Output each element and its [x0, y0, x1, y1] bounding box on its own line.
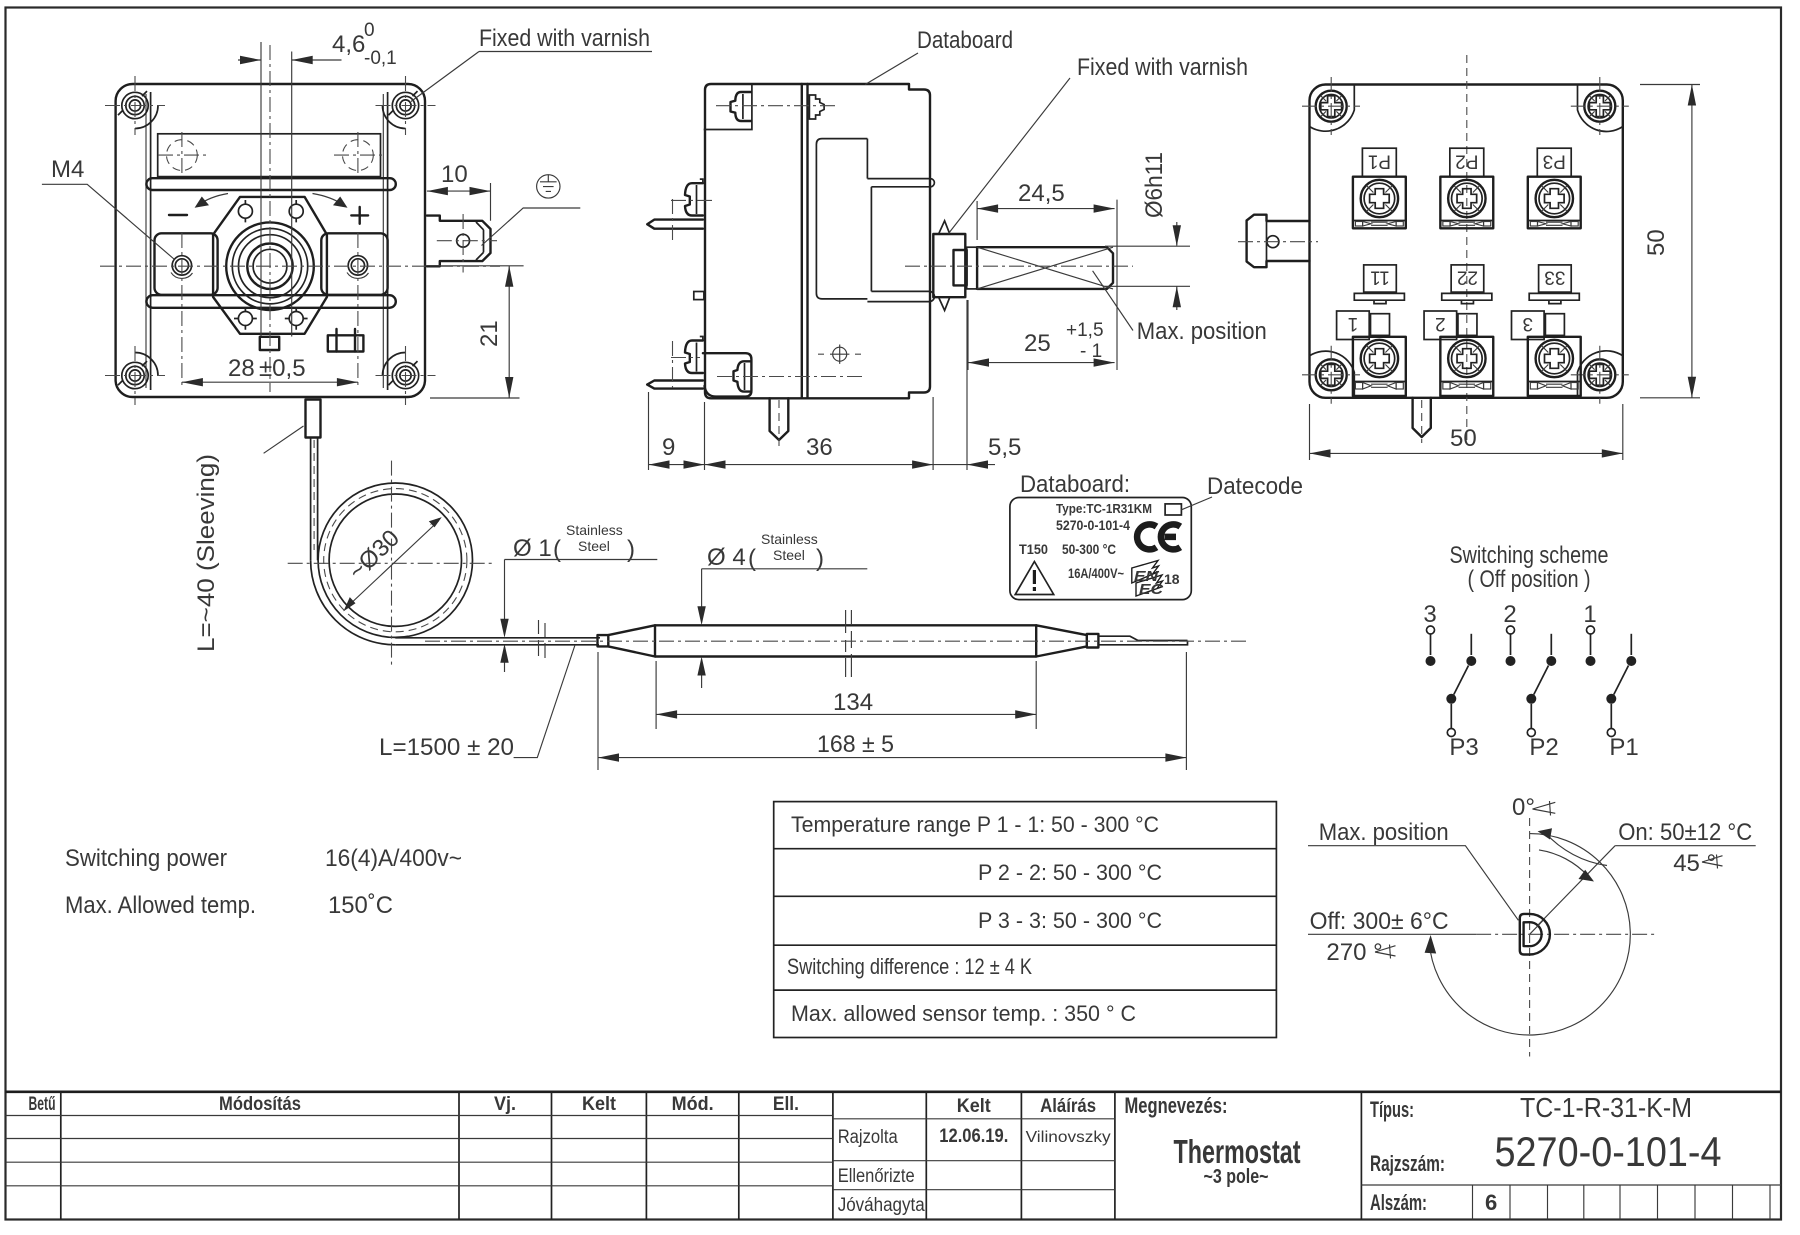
- svg-text:P1: P1: [1368, 151, 1391, 172]
- terminal 1 block: [1337, 311, 1406, 396]
- earth tab fold lines: [476, 222, 484, 260]
- front centerline vertical: [269, 45, 271, 392]
- title block top line: [6, 1091, 1782, 1094]
- svg-text:Módosítás: Módosítás: [219, 1094, 301, 1115]
- svg-text:Max. allowed sensor temp. : 35: Max. allowed sensor temp. : 350 ° C: [791, 1001, 1136, 1026]
- cw arrow: [313, 194, 345, 206]
- svg-text:Switching power: Switching power: [65, 845, 227, 872]
- earth tab front: [427, 216, 491, 267]
- svg-text:Thermostat: Thermostat: [1174, 1133, 1301, 1170]
- svg-text:Rajzszám:: Rajzszám:: [1370, 1151, 1445, 1176]
- earth tab rear hole: [1267, 236, 1279, 248]
- hole centerlines: [158, 132, 382, 178]
- axis top screws: [716, 105, 837, 107]
- svg-text:Type:TC-1R31KM: Type:TC-1R31KM: [1056, 501, 1152, 516]
- rear body: [1310, 85, 1623, 398]
- svg-text:Max. Allowed temp.: Max. Allowed temp.: [65, 892, 256, 919]
- svg-text:Switching difference : 12 ± 4: Switching difference : 12 ± 4 K: [787, 954, 1032, 979]
- svg-text:T150: T150: [1019, 541, 1048, 557]
- hexagon hole BL: [234, 307, 257, 329]
- svg-text:270 °: 270 °: [1326, 939, 1382, 966]
- svg-text:Off: 300± 6°C: Off: 300± 6°C: [1310, 908, 1449, 935]
- break marks bulb: [846, 610, 852, 677]
- knob circle outer: [226, 222, 314, 310]
- bulb cone right: [1036, 625, 1087, 656]
- svg-text:10: 10: [441, 161, 468, 188]
- svg-text:5270-0-101-4: 5270-0-101-4: [1495, 1128, 1722, 1175]
- svg-text:12.06.19.: 12.06.19.: [939, 1126, 1008, 1147]
- radial 45 line: [1538, 846, 1616, 926]
- svg-text:0°: 0°: [1512, 794, 1535, 821]
- databoard window left edge: [870, 187, 872, 292]
- coil dashed circle: [324, 489, 467, 632]
- corner screw TR: [1584, 91, 1615, 122]
- knob circle 3: [239, 235, 302, 298]
- svg-text:P 2 - 2: 50 - 300 °C: P 2 - 2: 50 - 300 °C: [978, 860, 1162, 885]
- terminal 3 block: [1512, 311, 1581, 396]
- bracket screw: [734, 361, 752, 391]
- svg-text:TC-1-R-31-K-M: TC-1-R-31-K-M: [1520, 1092, 1692, 1123]
- small screw right of divider: [809, 95, 824, 119]
- spec table frame: [774, 802, 1277, 1038]
- knob hexagon plate: [213, 197, 327, 334]
- rotation centerline horizontal: [1476, 933, 1655, 935]
- corner screw TL: [118, 91, 148, 119]
- svg-text:P2: P2: [1455, 151, 1478, 172]
- corner screw TR: [389, 91, 419, 119]
- pole 2: [1503, 601, 1558, 761]
- corner screw BR: [1584, 359, 1615, 390]
- bulb cylinder: [655, 625, 1036, 656]
- bracket axis: [717, 376, 866, 378]
- svg-text:Datecode: Datecode: [1207, 473, 1303, 500]
- bottom side component: [328, 329, 364, 352]
- svg-text:3: 3: [1523, 313, 1534, 334]
- svg-text:150˚C: 150˚C: [328, 892, 393, 919]
- terminal P3: [1528, 148, 1581, 228]
- svg-text:18: 18: [1164, 571, 1180, 587]
- svg-text:6: 6: [1485, 1190, 1497, 1215]
- svg-text:Vj.: Vj.: [494, 1094, 516, 1115]
- dim 25: [968, 300, 1115, 370]
- svg-text:Mód.: Mód.: [672, 1094, 714, 1115]
- svg-text:Steel: Steel: [773, 547, 805, 563]
- bottom stem: [770, 398, 789, 440]
- svg-text:Alszám:: Alszám:: [1370, 1190, 1427, 1215]
- databoard inner plate: [816, 139, 867, 299]
- svg-text:Rajzolta: Rajzolta: [838, 1127, 898, 1148]
- top terminal centerlines: [671, 199, 714, 242]
- svg-text:~3 pole~: ~3 pole~: [1204, 1166, 1269, 1188]
- rear center dashed line: [1466, 55, 1468, 445]
- terminal 2 block: [1424, 311, 1493, 396]
- svg-text:Kelt: Kelt: [582, 1094, 617, 1115]
- earth tab hole: [457, 234, 470, 247]
- pole 3: [1423, 601, 1478, 761]
- knob bore circle: [253, 249, 287, 283]
- svg-text:( Off position ): ( Off position ): [1468, 566, 1591, 593]
- terminal tab 33: [1529, 265, 1579, 304]
- top spacer rectangle: [158, 134, 381, 177]
- svg-text:22: 22: [1457, 267, 1478, 288]
- svg-text:): ): [816, 545, 824, 572]
- svg-text:- 1: - 1: [1080, 341, 1102, 362]
- inner mounting plate right edge: [387, 92, 389, 390]
- dim 4,6 arrows: [240, 56, 313, 64]
- corner screw centerlines: [1302, 77, 1629, 404]
- sleeve: [306, 400, 321, 438]
- corner boss arcs: [135, 106, 158, 129]
- svg-text:1: 1: [1583, 601, 1596, 628]
- knob circle 4: [247, 244, 292, 289]
- knob symbol inner: [1524, 922, 1542, 946]
- knob symbol outer: [1520, 914, 1550, 955]
- spec table row lines: [774, 849, 1277, 990]
- ENEC logo: [1132, 561, 1180, 599]
- svg-text:24,5: 24,5: [1018, 180, 1065, 207]
- svg-text:(: (: [748, 545, 756, 572]
- svg-text:Temperature range P 1 - 1: 50: Temperature range P 1 - 1: 50 - 300 °C: [791, 812, 1159, 837]
- bulb collar right: [1087, 634, 1099, 648]
- svg-text:L=~40 (Sleeving): L=~40 (Sleeving): [193, 454, 220, 652]
- capillary exit tube: [395, 638, 600, 645]
- inner mounting plate left edge: [150, 92, 152, 390]
- svg-text:Fixed with varnish: Fixed with varnish: [479, 25, 650, 52]
- svg-text:Jóváhagyta: Jóváhagyta: [838, 1195, 925, 1216]
- shaft cross marking: [977, 247, 1113, 289]
- svg-text:P3: P3: [1543, 151, 1566, 172]
- svg-text:Ellenőrizte: Ellenőrizte: [838, 1166, 915, 1187]
- dim 50 horizontal: [1310, 404, 1623, 460]
- dim 134: [656, 661, 1036, 729]
- front view body plate: [116, 84, 425, 397]
- dim 168: [598, 652, 1186, 770]
- svg-text:Típus:: Típus:: [1370, 1097, 1414, 1122]
- svg-text:16A/400V~: 16A/400V~: [1068, 566, 1124, 581]
- svg-text:P2: P2: [1529, 734, 1558, 761]
- shaft centerline: [905, 265, 1133, 267]
- minus mark: [169, 214, 187, 216]
- svg-text:5270-0-101-4: 5270-0-101-4: [1056, 517, 1130, 533]
- svg-text:Max. position: Max. position: [1137, 318, 1267, 345]
- dim 36: [705, 397, 934, 470]
- svg-text:P3: P3: [1449, 734, 1478, 761]
- tipus block: [1360, 1092, 1362, 1220]
- svg-text:+1,5: +1,5: [1066, 320, 1104, 341]
- svg-text:21: 21: [476, 320, 503, 347]
- svg-text:134: 134: [833, 689, 873, 716]
- corner tab BR: [1578, 351, 1623, 398]
- M4 hole right: [347, 256, 369, 279]
- svg-text:Databoard: Databoard: [917, 27, 1013, 54]
- svg-text:Ø6h11: Ø6h11: [1141, 152, 1168, 218]
- corner screw BL: [1316, 359, 1347, 390]
- svg-text:4,6: 4,6: [332, 31, 365, 58]
- break marks capillary: [539, 620, 546, 658]
- coil centerlines: [288, 461, 496, 666]
- svg-text:50: 50: [1450, 425, 1477, 452]
- svg-text:50-300 °C: 50-300 °C: [1062, 541, 1116, 557]
- databoard plate right edge top segment: [866, 139, 868, 179]
- svg-text:Vilinovszky: Vilinovszky: [1026, 1129, 1111, 1146]
- databoard bottom bar: [867, 291, 934, 301]
- varnish chevron bottom: [939, 298, 950, 311]
- shaft: [977, 247, 1113, 289]
- svg-text:9: 9: [662, 434, 675, 461]
- bulb cone left: [608, 625, 655, 656]
- svg-text:-0,1: -0,1: [364, 48, 397, 69]
- svg-text:Stainless: Stainless: [761, 531, 818, 547]
- rear terminal bracket side: [703, 353, 752, 396]
- hexagon hole BR: [285, 307, 308, 329]
- side body outline: [705, 84, 930, 398]
- svg-text:M4: M4: [51, 156, 84, 183]
- dim 9: [649, 392, 705, 470]
- hexagon hole TR: [289, 200, 303, 222]
- upper frame bar: [146, 178, 395, 190]
- ear outline: [704, 84, 752, 130]
- corner tab BL: [1310, 351, 1355, 398]
- label plate: [1010, 498, 1191, 600]
- svg-text:3: 3: [1423, 601, 1436, 628]
- bushing small rect: [954, 250, 967, 285]
- earth tab centerlines: [437, 214, 497, 273]
- dim 21: [430, 266, 524, 398]
- svg-text:0: 0: [364, 20, 375, 41]
- ear screw: [731, 92, 751, 121]
- svg-text:Megnevezés:: Megnevezés:: [1125, 1093, 1228, 1118]
- varnish chevron top: [939, 221, 950, 234]
- svg-text:P 3 - 3: 50 - 300 °C: P 3 - 3: 50 - 300 °C: [978, 908, 1162, 933]
- svg-text:25: 25: [1024, 330, 1051, 357]
- M4 hole left: [171, 256, 193, 279]
- svg-text:Stainless: Stainless: [566, 522, 623, 538]
- svg-text:Switching scheme: Switching scheme: [1450, 542, 1609, 569]
- earth tab rear centerline: [1238, 241, 1318, 243]
- dim 24,5: [977, 200, 1117, 370]
- dia30 arrow: [347, 521, 439, 608]
- svg-text:Fixed with varnish: Fixed with varnish: [1077, 54, 1248, 81]
- svg-text:50: 50: [1643, 229, 1670, 256]
- svg-text:Betű: Betű: [29, 1094, 56, 1115]
- svg-text:Kelt: Kelt: [957, 1096, 992, 1117]
- lower frame bar: [146, 295, 395, 308]
- datum target symbol: [830, 345, 849, 364]
- bulb tip: [1098, 636, 1187, 645]
- svg-text:168 ± 5: 168 ± 5: [817, 731, 894, 758]
- top terminal screw: [685, 183, 703, 215]
- coil outer circle: [318, 483, 472, 637]
- svg-text:Ø 4: Ø 4: [707, 544, 746, 571]
- svg-text:36: 36: [806, 434, 833, 461]
- bottom terminal screw: [685, 341, 703, 374]
- corner screw centerlines: [105, 76, 436, 405]
- bottom shaft tab: [260, 337, 279, 350]
- right wing bracket: [321, 233, 387, 294]
- datecode box: [1165, 504, 1181, 515]
- knob circle 2: [232, 229, 307, 304]
- coil inner circle: [329, 494, 461, 626]
- svg-text:±0,5: ±0,5: [259, 355, 306, 382]
- svg-text:Ø 1: Ø 1: [513, 535, 552, 562]
- ccw arrow: [198, 194, 229, 206]
- rear bottom stem: [1413, 398, 1431, 437]
- svg-text:Max. position: Max. position: [1319, 819, 1449, 846]
- svg-text:Aláírás: Aláírás: [1040, 1096, 1096, 1117]
- svg-text:28: 28: [228, 355, 255, 382]
- capillary bend: [311, 560, 396, 645]
- corner tab TR: [1578, 85, 1623, 132]
- knob radial mark: [1530, 921, 1543, 935]
- M4 hole centerlines vertical: [182, 233, 358, 389]
- top terminal blade: [647, 220, 703, 229]
- signature block horizontals: [833, 1119, 1115, 1190]
- small arc arrow outer: [1545, 833, 1607, 866]
- svg-text:EC: EC: [1139, 581, 1164, 598]
- bulb collar left: [598, 635, 609, 646]
- svg-text:2: 2: [1435, 313, 1446, 334]
- dashed hole circle left: [167, 140, 198, 171]
- dim 10: [427, 183, 491, 221]
- terminal P2: [1440, 148, 1493, 228]
- earth tab rear: [1247, 215, 1310, 268]
- revision table horizontals: [6, 1116, 833, 1186]
- dim 28: [182, 381, 358, 383]
- warning triangle: [1015, 562, 1053, 595]
- corner screw BR: [389, 361, 419, 389]
- bulb axis centerline: [425, 640, 1246, 642]
- terminal tab 11: [1354, 265, 1404, 304]
- corner screw BL: [118, 361, 148, 389]
- stem centerline: [778, 400, 780, 446]
- plus mark: [351, 207, 368, 224]
- svg-text:Databoard:: Databoard:: [1020, 471, 1130, 498]
- svg-text:16(4)A/400v~: 16(4)A/400v~: [325, 845, 462, 872]
- hexagon hole TL: [238, 200, 252, 222]
- capillary tube vertical: [311, 438, 318, 561]
- corner tab TL: [1310, 85, 1355, 132]
- CE mark: [1137, 524, 1180, 549]
- svg-text:2: 2: [1503, 601, 1516, 628]
- shaft bracket: [933, 234, 965, 297]
- tube centerline vertical: [313, 440, 315, 550]
- svg-text:5,5: 5,5: [988, 434, 1021, 461]
- body divider double line: [802, 84, 808, 398]
- shaft slot flat lines: [261, 52, 292, 337]
- svg-text:P1: P1: [1609, 734, 1638, 761]
- rotation centerline vertical: [1529, 818, 1531, 1057]
- svg-text:1: 1: [1348, 313, 1359, 334]
- terminal P1: [1353, 148, 1406, 228]
- corner screw TL: [1316, 91, 1347, 122]
- dashed hole circle right: [343, 140, 374, 171]
- svg-text:33: 33: [1544, 267, 1565, 288]
- svg-text:Ell.: Ell.: [773, 1094, 799, 1115]
- dim 4,6 line: [238, 42, 342, 60]
- svg-text:On: 50±12 °C: On: 50±12 °C: [1618, 819, 1752, 846]
- earth leader: [482, 208, 581, 246]
- front centerline horizontal: [100, 265, 500, 267]
- big rotation arc: [1429, 834, 1630, 1035]
- dim 50 vertical: [1640, 85, 1700, 398]
- left wing bracket: [155, 233, 218, 294]
- alszam row: [1361, 1184, 1781, 1186]
- bushing step: [967, 247, 977, 289]
- earth symbol: [537, 175, 560, 198]
- terminal tab 22: [1442, 265, 1492, 304]
- databoard top bar: [867, 179, 934, 187]
- signature block verticals: [926, 1092, 1115, 1220]
- revision table verticals: [61, 1092, 833, 1220]
- svg-text:L=1500 ± 20: L=1500 ± 20: [379, 734, 514, 761]
- svg-text:11: 11: [1370, 267, 1390, 288]
- bottom terminal blade: [647, 381, 703, 389]
- small arc arrow inner: [1539, 850, 1588, 876]
- dim 5,5: [933, 300, 995, 470]
- middle small tab: [694, 292, 704, 300]
- svg-text:Steel: Steel: [578, 538, 610, 554]
- pole 1: [1583, 601, 1638, 761]
- bottom terminal centerlines: [671, 341, 700, 388]
